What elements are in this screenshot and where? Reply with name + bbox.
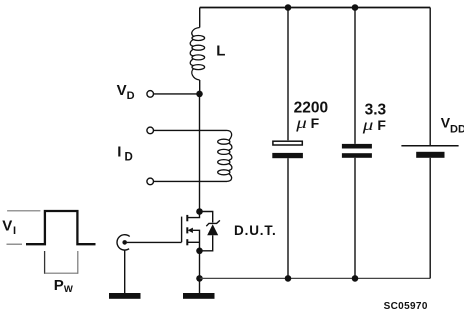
gate plate <box>181 217 183 243</box>
node DUT drain junction dot <box>196 208 203 215</box>
node VD junction dot <box>196 91 203 98</box>
svg-text:F: F <box>377 117 386 133</box>
svg-text:VDD: VDD <box>441 115 464 136</box>
wire top-left corner down to inductor <box>199 8 201 28</box>
capacitor C1 bottom plate <box>272 153 303 158</box>
body arrow <box>188 228 193 233</box>
svg-text:L: L <box>216 43 225 60</box>
capacitor C1 bottom lead <box>287 158 289 278</box>
wire drain node to diode cathode <box>200 212 213 223</box>
ground under generator <box>109 293 141 299</box>
capacitor C2 top plate <box>342 144 372 149</box>
node DUT source junction dot <box>196 248 203 255</box>
capacitor C1 2200uF top lead <box>287 8 289 141</box>
ground under source <box>183 293 215 299</box>
capacitor C2 bottom lead <box>354 158 356 279</box>
diode cathode bar with hooks <box>206 220 220 226</box>
wire bottom rail <box>200 277 431 279</box>
wire generator to ground <box>124 250 126 293</box>
PW dimension line <box>45 272 78 274</box>
capacitor C1 top plate (hollow) <box>273 141 302 145</box>
channel bar drain <box>186 215 188 221</box>
terminal VD open circle <box>147 91 154 98</box>
wire source to bottom rail <box>199 251 201 279</box>
svg-text:D.U.T.: D.U.T. <box>234 223 277 238</box>
PW dimension left tick <box>44 251 46 274</box>
svg-text:PW: PW <box>54 277 73 295</box>
svg-text:F: F <box>311 115 320 131</box>
waveform top level dash <box>7 210 40 212</box>
source lead <box>187 241 199 243</box>
node bottom-left junction dot <box>196 275 203 282</box>
transistor Q DUT mosfet <box>182 212 200 251</box>
generator center dot <box>122 240 127 245</box>
wire to ground under source <box>199 278 201 293</box>
wire VD terminal to node <box>154 93 200 95</box>
diode triangle <box>207 224 218 235</box>
channel bar body <box>186 227 188 233</box>
inductor L <box>190 28 204 81</box>
svg-text:ID: ID <box>117 144 132 164</box>
pulse generator symbol <box>117 235 182 293</box>
channel bar source <box>186 239 188 245</box>
terminal ID bottom open circle <box>147 178 154 185</box>
wire ID bottom from sense coil <box>154 180 227 182</box>
waveform zero level dash <box>7 243 23 245</box>
node bottom rail C2 dot <box>352 275 359 282</box>
svg-text:VD: VD <box>117 82 135 102</box>
wire main vertical VD node to DUT drain <box>199 94 201 212</box>
wire top rail <box>200 7 431 9</box>
svg-text:μ: μ <box>295 114 307 132</box>
battery VDD top lead <box>429 8 431 146</box>
diode body (antiparallel) <box>200 212 220 251</box>
wire ID top to sense coil <box>154 129 227 131</box>
battery negative plate (short thick) <box>416 152 444 158</box>
current sense coil <box>218 130 232 181</box>
battery bottom lead <box>429 158 431 279</box>
node top rail C1 dot <box>285 4 292 11</box>
capacitor C2 bottom plate <box>342 153 372 158</box>
body lead <box>193 230 200 251</box>
wire diode anode to source node <box>200 235 213 251</box>
capacitor C2 3.3uF top lead <box>354 8 356 144</box>
wire inductor bottom to VD node <box>199 80 201 94</box>
svg-text:μ: μ <box>362 116 374 134</box>
wire generator to gate <box>127 241 182 243</box>
svg-text:VI: VI <box>2 218 16 237</box>
terminal ID top open circle <box>147 127 154 134</box>
svg-text:SC05970: SC05970 <box>384 301 428 311</box>
waveform pulse VI <box>26 211 96 244</box>
node top rail C2 dot <box>352 4 359 11</box>
battery positive plate (long thin) <box>401 145 458 147</box>
PW dimension right tick <box>77 251 79 274</box>
generator arc <box>117 235 130 250</box>
drain lead <box>187 212 199 218</box>
node bottom rail C1 dot <box>285 275 292 282</box>
